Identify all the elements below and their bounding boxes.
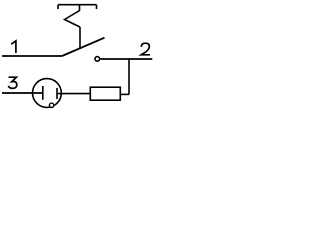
node 3 label: [8, 77, 16, 88]
resistor R1 (box): [90, 87, 120, 100]
neon lamp right electrode: [56, 88, 58, 99]
wire branch bottom horizontal: [120, 93, 129, 95]
wire branch right vertical: [128, 59, 130, 94]
node 1 label: [11, 41, 16, 53]
wire terminal 1: [2, 55, 62, 57]
wire terminal 2: [100, 58, 152, 60]
spring (actuator zigzag): [65, 5, 81, 27]
switch contact circle: [95, 57, 100, 62]
node 2 label: [141, 43, 150, 55]
switch blade S: [62, 38, 105, 56]
bracket (switch actuator support): [58, 5, 97, 9]
wire terminal 3: [2, 92, 43, 94]
wire tube-to-resistor: [57, 93, 90, 95]
neon lamp gas dot: [49, 103, 53, 107]
actuator link wire: [79, 27, 81, 48]
background: [0, 0, 160, 120]
neon lamp left electrode: [42, 86, 44, 100]
neon lamp V1 (envelope): [33, 79, 62, 108]
